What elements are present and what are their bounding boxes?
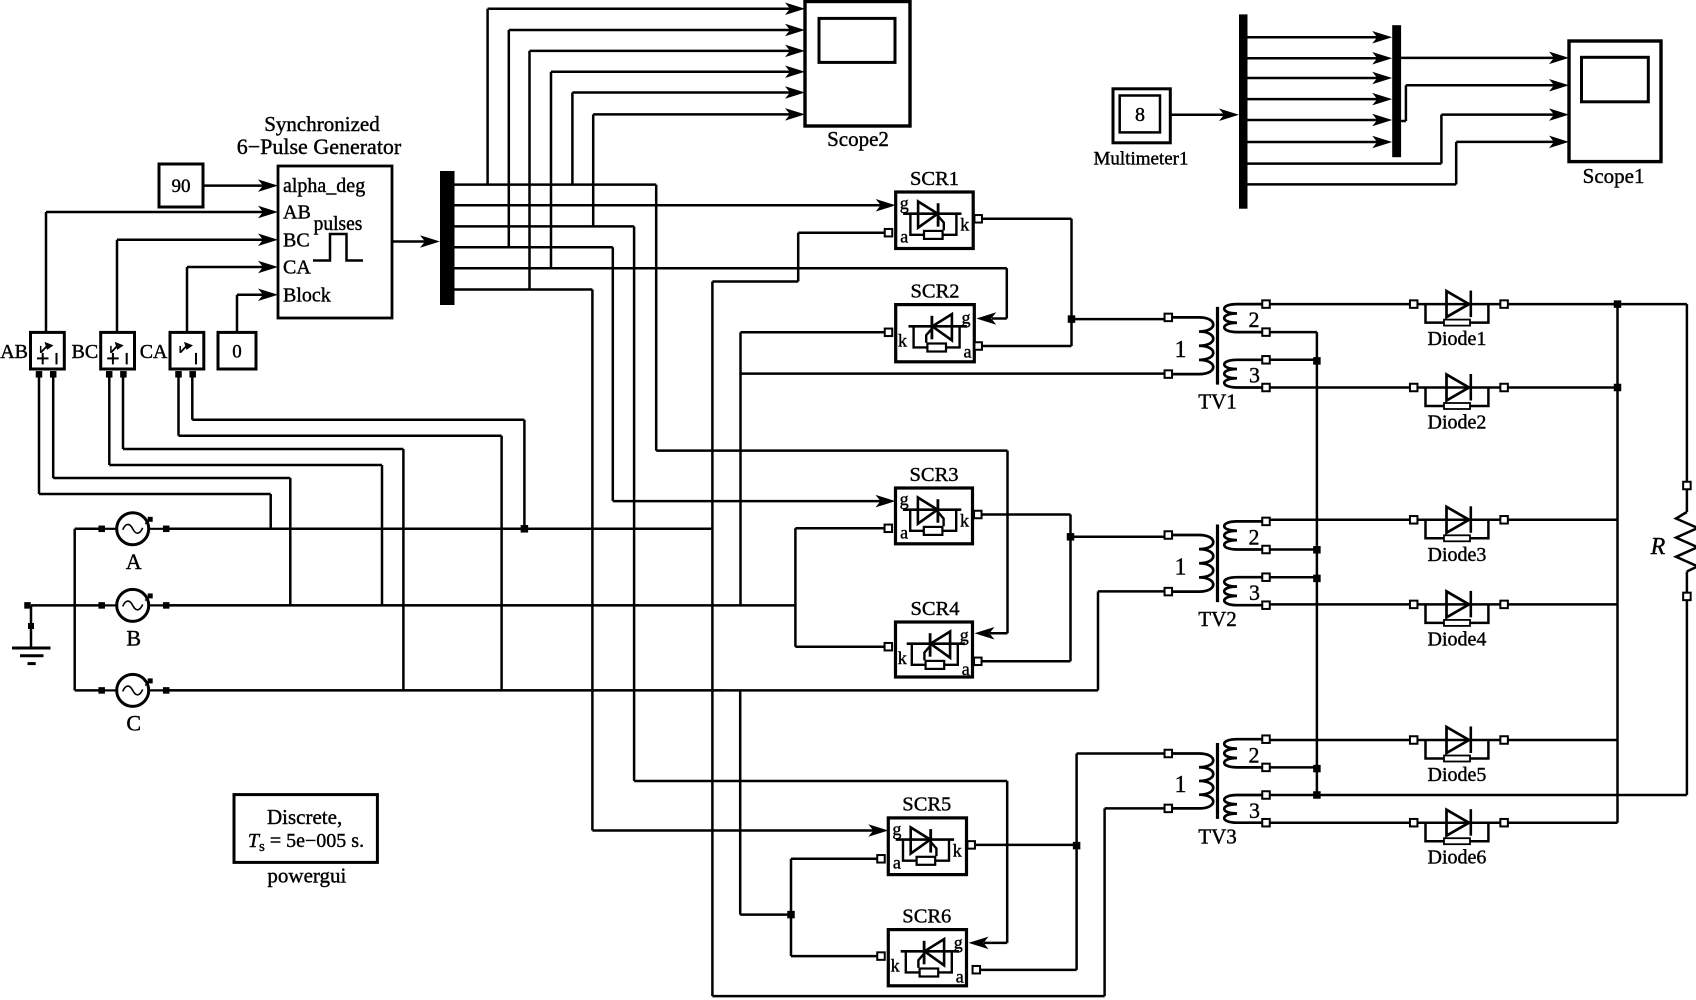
Diode6 cathode port	[1500, 819, 1508, 827]
svg-text:Synchronized: Synchronized	[264, 112, 380, 136]
TV1 primary port 1-	[1165, 370, 1173, 378]
junction TV3 sec2-	[1313, 765, 1321, 773]
TV3 secondary port 2+	[1262, 735, 1270, 743]
wire TV2 sec2-	[1270, 548, 1317, 551]
BC + terminal port	[106, 371, 113, 378]
svg-text:SCR6: SCR6	[902, 906, 951, 928]
arrow into SCR1 gate	[876, 199, 896, 212]
wire scope2 feeder 6	[592, 114, 595, 226]
junction TV2 sec2-	[1313, 546, 1321, 554]
constant block 0	[218, 332, 256, 369]
CA + terminal port	[175, 371, 182, 378]
wire phase B	[166, 604, 795, 607]
wire SCR1 k to SCR2 a and TV1 primary top	[982, 218, 1072, 221]
svg-text:TV2: TV2	[1198, 607, 1237, 631]
TV2 secondary port 2-	[1262, 546, 1270, 554]
wire BC output to generator BC input	[116, 240, 119, 333]
svg-text:2: 2	[1249, 742, 1260, 767]
svg-text:alpha_deg: alpha_deg	[283, 175, 365, 197]
wire TV2 sec3+	[1270, 576, 1317, 579]
thyristor symbol inside SCR2	[909, 325, 967, 328]
wire SCR3 k to SCR4 a and TV2 primary top	[982, 513, 1071, 516]
diode Diode3	[1414, 519, 1504, 522]
junction SCR3k-SCR4a / TV2	[1067, 533, 1075, 541]
transformer TV2 primary winding	[1172, 535, 1213, 592]
TV3 secondary port 2-	[1262, 764, 1270, 772]
svg-text:SCR4: SCR4	[911, 598, 960, 620]
svg-text:Scope1: Scope1	[1583, 164, 1645, 188]
TV1 secondary port 2+	[1262, 300, 1270, 308]
AB + terminal port	[36, 371, 43, 378]
wire phase A bottom run to TV3 primary	[712, 995, 1104, 998]
demux bar (pulses)	[440, 171, 455, 305]
svg-text:BC: BC	[72, 341, 99, 363]
svg-text:TV1: TV1	[1198, 390, 1237, 414]
wire SCR5 k to SCR6 a and TV3 primary top	[975, 844, 1077, 847]
AC voltage source C	[117, 674, 149, 706]
svg-text:AB: AB	[283, 202, 311, 224]
TV3 secondary winding 2	[1224, 739, 1266, 767]
Diode3 anode port	[1410, 516, 1418, 524]
svg-text:Discrete,: Discrete,	[267, 805, 342, 829]
svg-text:k: k	[898, 648, 907, 668]
thyristor symbol inside SCR4	[907, 642, 965, 645]
arrow into SCR5 gate	[868, 824, 888, 837]
svg-text:90: 90	[172, 176, 191, 197]
wire AB output to generator AB input	[45, 212, 48, 332]
svg-text:a: a	[893, 852, 901, 872]
wire SCR2 k to phase B / TV1 primary bottom	[741, 331, 885, 334]
svg-text:3: 3	[1249, 580, 1260, 605]
svg-text:Block: Block	[283, 284, 331, 306]
wire Diode6 out	[1508, 821, 1617, 824]
wire CA+ to phase C	[177, 377, 180, 436]
svg-text:g: g	[960, 625, 969, 645]
constant block 90	[159, 164, 203, 207]
svg-text:B: B	[126, 625, 141, 650]
svg-text:g: g	[962, 308, 971, 328]
junction phase C branch	[787, 911, 795, 919]
scope Scope2	[805, 2, 910, 127]
junction SCR1k-SCR2a / TV1	[1068, 315, 1076, 323]
transformer TV1 primary winding	[1172, 317, 1213, 374]
diode Diode6	[1414, 821, 1504, 824]
wire AB+ to phase A	[38, 377, 41, 494]
wire TV3 sec3- to Diode6	[1270, 821, 1409, 824]
SCR1 a port	[885, 229, 893, 237]
wire TV1 sec3- to Diode2	[1270, 386, 1409, 389]
AC voltage source B	[117, 589, 149, 621]
arrow into SCR4 gate	[975, 627, 995, 640]
svg-text:g: g	[900, 489, 909, 509]
thyristor block SCR1	[896, 192, 974, 249]
svg-text:k: k	[953, 840, 962, 860]
svg-text:g: g	[892, 819, 901, 839]
svg-text:a: a	[956, 967, 964, 987]
BC - terminal port	[120, 371, 127, 378]
thyristor symbol inside SCR5	[896, 838, 954, 841]
scope Scope1	[1569, 41, 1661, 162]
voltage measurement block CA	[170, 332, 204, 369]
TV3 secondary port 3-	[1262, 819, 1270, 827]
wire TV3 sec2-	[1270, 766, 1317, 769]
wire scope2 feeder 3	[528, 51, 531, 290]
wire TV1 sec2- down	[1270, 331, 1317, 334]
wire scope2 feeder 5	[571, 93, 574, 185]
TV2 core	[1216, 525, 1219, 603]
SCR5 a port	[877, 855, 885, 863]
thyristor block SCR5	[888, 818, 966, 875]
svg-text:k: k	[960, 215, 969, 235]
arrow into SCR6 gate	[969, 937, 989, 950]
source A right port	[163, 526, 170, 533]
wire TV2 sec2+ to Diode3	[1270, 519, 1409, 522]
wire TV3 sec3+ and return to load	[1270, 794, 1317, 797]
Diode4 cathode port	[1500, 601, 1508, 609]
wire phase A long vertical	[711, 282, 714, 997]
svg-text:3: 3	[1249, 363, 1260, 388]
Diode1 anode port	[1410, 300, 1418, 308]
svg-text:BC: BC	[283, 229, 310, 251]
junction TV1 center tap	[1313, 357, 1321, 365]
SCR4 a port	[974, 658, 982, 666]
powergui block	[234, 795, 377, 863]
wire phase C down to SCR5 a / SCR6 k	[739, 690, 742, 914]
svg-text:Multimeter1: Multimeter1	[1094, 149, 1189, 170]
wire demux to Scope1 input 3	[1248, 162, 1442, 165]
svg-text:8: 8	[1135, 104, 1145, 126]
CA - terminal port	[189, 371, 196, 378]
svg-text:Scope2: Scope2	[827, 127, 889, 151]
svg-text:k: k	[960, 511, 969, 531]
SCR4 k port	[885, 643, 893, 651]
source B left port	[98, 602, 105, 609]
junction SCR5k / TV3	[1073, 842, 1081, 850]
TV3 secondary winding 3	[1224, 795, 1266, 823]
TV1 secondary port 3-	[1262, 384, 1270, 392]
diode Diode5	[1414, 739, 1504, 742]
junction bus / Diode1 row	[1614, 300, 1622, 308]
thyristor block SCR2	[896, 305, 975, 362]
wire Diode3 out	[1508, 519, 1617, 522]
wire CA output to generator CA input	[186, 267, 189, 332]
wire generator pulses output to demux	[392, 240, 428, 243]
Diode1 cathode port	[1500, 300, 1508, 308]
junction bus / Diode2	[1614, 384, 1622, 392]
svg-text:6−Pulse Generator: 6−Pulse Generator	[237, 134, 402, 159]
Diode3 cathode port	[1500, 516, 1508, 524]
R bottom port	[1683, 593, 1691, 601]
wire TV1 sec3+	[1270, 359, 1317, 362]
TV2 secondary port 3+	[1262, 573, 1270, 581]
source A left port	[98, 526, 105, 533]
SCR2 a port	[974, 342, 982, 350]
Diode6 anode port	[1410, 819, 1418, 827]
svg-text:Diode1: Diode1	[1428, 328, 1487, 350]
svg-text:Diode3: Diode3	[1428, 544, 1487, 566]
wire pulse line L1 (to SCR4 gate)	[455, 183, 657, 186]
TV3 primary port 1-	[1165, 805, 1173, 813]
wire TV1 sec2+ to Diode1	[1270, 303, 1409, 306]
wire mux to Scope1 input 1	[1401, 57, 1555, 60]
TV1 secondary port 2-	[1262, 328, 1270, 336]
wire Multimeter1 to demux	[1170, 113, 1227, 116]
svg-text:a: a	[900, 523, 908, 543]
TV2 primary port 1-	[1165, 588, 1173, 596]
wire scope2 feeder 1	[486, 9, 489, 185]
thyristor symbol inside SCR6	[901, 950, 959, 953]
wire return line to R	[1317, 794, 1687, 797]
voltage measurement block BC	[101, 332, 135, 369]
Diode4 anode port	[1410, 601, 1418, 609]
svg-text:CA: CA	[140, 341, 168, 363]
TV3 secondary port 3+	[1262, 791, 1270, 799]
wire BC+ to phase B	[108, 377, 111, 465]
svg-text:2: 2	[1249, 307, 1260, 332]
svg-text:Diode6: Diode6	[1428, 847, 1487, 869]
svg-text:SCR2: SCR2	[911, 281, 960, 303]
svg-text:TV3: TV3	[1198, 825, 1237, 849]
svg-text:SCR5: SCR5	[902, 794, 951, 816]
svg-text:k: k	[891, 956, 900, 976]
svg-text:a: a	[964, 342, 972, 362]
AC voltage source A	[117, 513, 149, 545]
SCR3 k port	[974, 511, 982, 519]
SCR6 k port	[877, 952, 885, 960]
wire left bus joining sources	[73, 529, 76, 691]
svg-text:A: A	[126, 549, 142, 574]
TV2 primary port 1+	[1165, 531, 1173, 539]
wire Diode4 out	[1508, 603, 1617, 606]
svg-text:1: 1	[1175, 337, 1187, 363]
svg-text:Diode4: Diode4	[1428, 628, 1487, 650]
SCR5 k port	[967, 841, 975, 849]
diode Diode2	[1414, 386, 1504, 389]
svg-text:CA: CA	[283, 257, 311, 279]
SCR3 a port	[885, 525, 893, 533]
source C right port	[163, 687, 170, 694]
wire Diode1 out to R top	[1508, 303, 1687, 306]
TV2 secondary port 3-	[1262, 601, 1270, 609]
wire pulse line L2 (to SCR1 gate)	[455, 204, 882, 207]
TV1 primary port 1+	[1165, 314, 1173, 322]
TV2 secondary winding 3	[1224, 577, 1266, 605]
wire 90 to alpha_deg	[203, 184, 266, 187]
Diode2 cathode port	[1500, 384, 1508, 392]
svg-text:2: 2	[1249, 524, 1260, 549]
pulse waveform icon	[313, 234, 363, 261]
svg-text:powergui: powergui	[267, 864, 346, 888]
svg-text:a: a	[962, 659, 970, 679]
wire AB- to phase B	[52, 377, 55, 478]
ground	[31, 604, 75, 607]
svg-text:pulses: pulses	[314, 214, 363, 235]
wire phase A	[166, 528, 712, 531]
wires between multimeter bars	[1248, 36, 1381, 39]
SCR6 a port	[973, 966, 981, 974]
Diode5 anode port	[1410, 736, 1418, 744]
multimeter demux bar	[1239, 14, 1248, 208]
svg-text:SCR3: SCR3	[910, 464, 959, 486]
svg-text:R: R	[1650, 534, 1666, 560]
svg-text:Diode5: Diode5	[1428, 764, 1487, 786]
diode Diode1	[1414, 303, 1504, 306]
Diode2 anode port	[1410, 384, 1418, 392]
thyristor symbol inside SCR3	[903, 508, 961, 511]
wire CA- to phase A	[191, 377, 194, 420]
junction CA- / phase A	[521, 525, 529, 533]
thyristor symbol inside SCR1	[903, 212, 961, 215]
arrow into SCR3 gate	[876, 495, 896, 508]
Diode5 cathode port	[1500, 736, 1508, 744]
svg-text:SCR1: SCR1	[910, 168, 959, 190]
wire scope2 feeder 2	[508, 30, 511, 247]
AB - terminal port	[50, 371, 57, 378]
wire 0 to Block input	[236, 295, 239, 333]
voltage measurement block AB	[31, 332, 65, 369]
wire to TV1 primary bottom	[741, 372, 1165, 375]
svg-text:g: g	[900, 193, 909, 213]
wire TV3 sec2+ to Diode5	[1270, 739, 1409, 742]
svg-text:0: 0	[232, 342, 242, 363]
resistor R zigzag	[1676, 512, 1696, 572]
wire BC- to phase C	[122, 377, 125, 449]
wire demux to Scope1 input 4	[1248, 183, 1457, 186]
thyristor block SCR3	[896, 488, 973, 544]
wire Diode5 out	[1508, 739, 1617, 742]
TV1 secondary winding 2	[1224, 304, 1266, 332]
TV1 core	[1216, 307, 1219, 385]
wire SCR1 anode from phase A	[798, 231, 885, 234]
transformer TV3 primary winding	[1172, 754, 1213, 809]
wire pulse line L5 (to SCR2 gate)	[455, 267, 1007, 270]
wire SCR3 a / SCR4 k from phase B	[794, 528, 797, 646]
source C left port	[98, 687, 105, 694]
wire TV2 sec3- to Diode4	[1270, 603, 1409, 606]
svg-text:3: 3	[1249, 798, 1260, 823]
diode Diode4	[1414, 603, 1504, 606]
svg-text:1: 1	[1175, 554, 1187, 580]
wire scope2 feeder 4	[550, 72, 553, 269]
TV2 secondary port 2+	[1262, 518, 1270, 526]
thyristor block SCR4	[896, 622, 973, 677]
TV1 secondary winding 3	[1224, 360, 1266, 388]
thyristor block SCR6	[888, 930, 966, 986]
svg-text:a: a	[900, 227, 908, 247]
wire mux to Scope1 input 2	[1401, 120, 1406, 123]
svg-text:1: 1	[1175, 772, 1187, 798]
R top port	[1683, 482, 1691, 490]
wire pulse line L3 (to SCR6 gate)	[455, 225, 635, 228]
TV3 core	[1216, 743, 1219, 819]
SCR2 k port	[885, 329, 893, 337]
multimeter block Multimeter1	[1113, 89, 1170, 143]
source B right port	[163, 602, 170, 609]
svg-text:C: C	[126, 710, 141, 735]
junction TV2 sec3+	[1313, 575, 1321, 583]
svg-text:AB: AB	[0, 341, 28, 363]
svg-text:k: k	[898, 331, 907, 351]
svg-text:Diode2: Diode2	[1428, 412, 1487, 434]
arrow into SCR2 gate	[976, 312, 996, 325]
wire pulse line L4 (to SCR3 gate)	[455, 246, 613, 249]
TV3 primary port 1+	[1165, 750, 1173, 758]
svg-text:g: g	[954, 933, 963, 953]
TV1 secondary port 3+	[1262, 356, 1270, 364]
TV2 secondary winding 2	[1224, 521, 1266, 549]
SCR1 k port	[974, 215, 982, 223]
wire Diode2 out	[1508, 386, 1617, 389]
wire pulse line L6 (to SCR5 gate)	[455, 288, 593, 291]
block Synchronized 6-Pulse Generator	[278, 166, 392, 318]
wire to TV2 primary bottom	[1098, 590, 1164, 593]
second mux bar	[1392, 25, 1401, 157]
wire cathode bus	[1616, 304, 1619, 823]
wire phase C	[166, 689, 1098, 692]
junction TV3 sec3+ / return	[1313, 791, 1321, 799]
svg-text:Ts = 5e−005 s.: Ts = 5e−005 s.	[248, 830, 364, 855]
